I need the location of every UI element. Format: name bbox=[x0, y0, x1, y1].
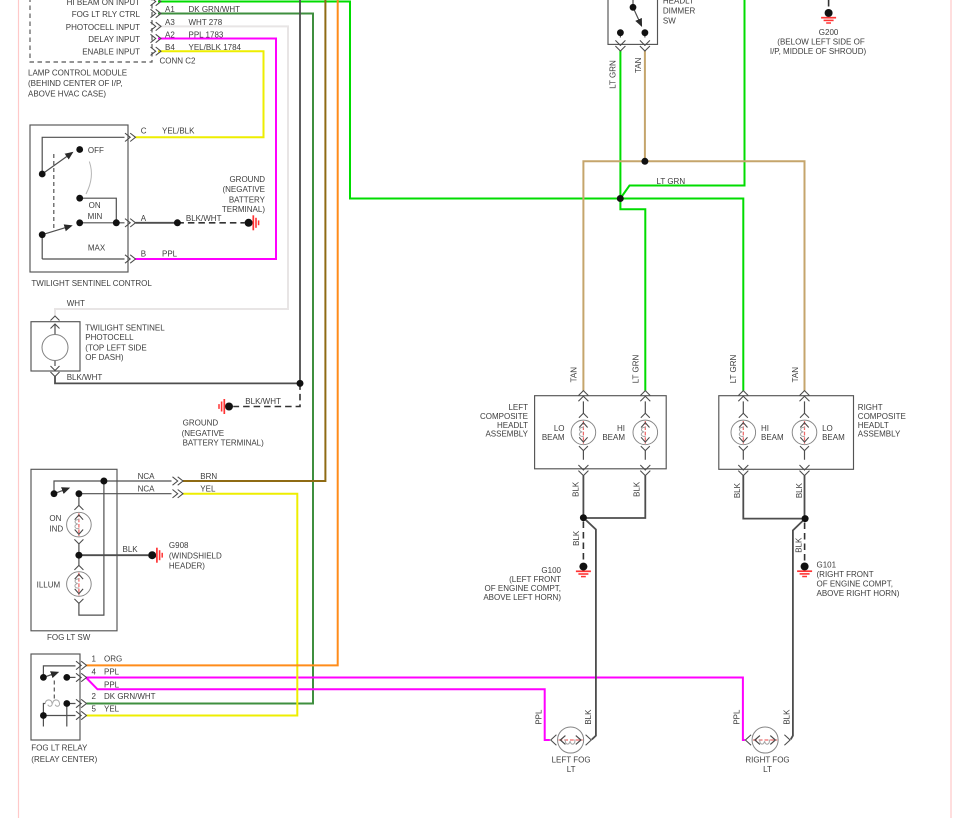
svg-text:CONN C2: CONN C2 bbox=[160, 56, 197, 65]
svg-text:GROUND: GROUND bbox=[183, 419, 219, 428]
svg-text:(NEGATIVE: (NEGATIVE bbox=[222, 185, 265, 194]
svg-text:HI: HI bbox=[761, 424, 769, 433]
svg-text:DIMMER: DIMMER bbox=[663, 7, 696, 16]
svg-text:ENABLE INPUT: ENABLE INPUT bbox=[82, 48, 140, 57]
svg-text:OF ENGINE COMPT,: OF ENGINE COMPT, bbox=[485, 584, 561, 593]
svg-text:RIGHT: RIGHT bbox=[858, 403, 883, 412]
svg-text:PHOTOCELL: PHOTOCELL bbox=[85, 333, 134, 342]
svg-text:LO: LO bbox=[554, 424, 565, 433]
svg-text:ABOVE RIGHT HORN): ABOVE RIGHT HORN) bbox=[817, 589, 900, 598]
svg-text:HEADER): HEADER) bbox=[169, 562, 205, 571]
svg-text:BLK: BLK bbox=[572, 530, 581, 546]
svg-text:LT GRN: LT GRN bbox=[657, 177, 686, 186]
svg-text:TAN: TAN bbox=[570, 367, 579, 383]
svg-text:SW: SW bbox=[663, 17, 676, 26]
svg-text:BLK: BLK bbox=[795, 537, 804, 553]
svg-text:BLK: BLK bbox=[733, 482, 742, 498]
svg-text:BEAM: BEAM bbox=[761, 433, 784, 442]
svg-text:MAX: MAX bbox=[88, 244, 106, 253]
svg-text:ILLUM: ILLUM bbox=[37, 581, 61, 590]
svg-text:IND: IND bbox=[49, 525, 63, 534]
svg-text:(BELOW LEFT SIDE OF: (BELOW LEFT SIDE OF bbox=[777, 38, 865, 47]
svg-text:RIGHT FOG: RIGHT FOG bbox=[745, 755, 789, 764]
svg-text:WHT 278: WHT 278 bbox=[189, 18, 223, 27]
svg-text:G908: G908 bbox=[169, 541, 189, 550]
svg-text:YEL/BLK: YEL/BLK bbox=[162, 127, 195, 136]
svg-text:A: A bbox=[141, 214, 147, 223]
svg-text:OF DASH): OF DASH) bbox=[85, 353, 124, 362]
svg-text:LT GRN: LT GRN bbox=[609, 60, 618, 89]
svg-text:LT GRN: LT GRN bbox=[729, 354, 738, 383]
svg-text:ASSEMBLY: ASSEMBLY bbox=[858, 430, 901, 439]
svg-text:BLK: BLK bbox=[783, 709, 792, 725]
svg-text:FOG LT RLY CTRL: FOG LT RLY CTRL bbox=[72, 10, 141, 19]
svg-text:YEL/BLK 1784: YEL/BLK 1784 bbox=[189, 43, 242, 52]
svg-text:BATTERY: BATTERY bbox=[229, 196, 266, 205]
svg-text:BLK: BLK bbox=[795, 482, 804, 498]
svg-text:LO: LO bbox=[822, 424, 833, 433]
svg-text:PPL 1783: PPL 1783 bbox=[189, 30, 224, 39]
svg-text:BLK: BLK bbox=[571, 481, 580, 497]
svg-text:WHT: WHT bbox=[67, 299, 85, 308]
svg-text:ABOVE LEFT HORN): ABOVE LEFT HORN) bbox=[483, 593, 561, 602]
svg-text:A2: A2 bbox=[165, 30, 175, 39]
svg-text:FOG LT SW: FOG LT SW bbox=[47, 633, 91, 642]
svg-text:TWILIGHT SENTINEL: TWILIGHT SENTINEL bbox=[85, 323, 165, 332]
svg-text:PPL: PPL bbox=[535, 709, 544, 725]
svg-text:B4: B4 bbox=[165, 43, 175, 52]
svg-text:DK GRN/WHT: DK GRN/WHT bbox=[104, 692, 156, 701]
svg-text:C: C bbox=[141, 127, 147, 136]
svg-text:(RIGHT FRONT: (RIGHT FRONT bbox=[817, 570, 874, 579]
svg-text:PPL: PPL bbox=[732, 709, 741, 725]
svg-text:LEFT FOG: LEFT FOG bbox=[552, 755, 591, 764]
svg-text:DK GRN/WHT: DK GRN/WHT bbox=[189, 5, 241, 14]
svg-text:LT GRN: LT GRN bbox=[632, 354, 641, 383]
svg-text:BLK: BLK bbox=[123, 545, 139, 554]
svg-text:FOG LT RELAY: FOG LT RELAY bbox=[31, 744, 88, 753]
svg-text:1: 1 bbox=[92, 655, 97, 664]
svg-text:ABOVE HVAC CASE): ABOVE HVAC CASE) bbox=[28, 89, 106, 98]
svg-text:TAN: TAN bbox=[791, 367, 800, 383]
svg-text:A3: A3 bbox=[165, 18, 175, 27]
svg-text:2: 2 bbox=[92, 692, 97, 701]
svg-text:HI BEAM ON INPUT: HI BEAM ON INPUT bbox=[67, 0, 140, 7]
svg-text:4: 4 bbox=[92, 667, 97, 676]
svg-text:BRN: BRN bbox=[200, 472, 217, 481]
svg-text:BLK/WHT: BLK/WHT bbox=[245, 397, 281, 406]
svg-text:I/P, MIDDLE OF SHROUD): I/P, MIDDLE OF SHROUD) bbox=[770, 47, 867, 56]
svg-text:NCA: NCA bbox=[138, 472, 156, 481]
svg-text:HI: HI bbox=[617, 424, 625, 433]
svg-text:BLK/WHT: BLK/WHT bbox=[67, 373, 103, 382]
svg-text:(NEGATIVE: (NEGATIVE bbox=[182, 429, 225, 438]
svg-text:COMPOSITE: COMPOSITE bbox=[858, 412, 906, 421]
svg-text:LAMP CONTROL MODULE: LAMP CONTROL MODULE bbox=[28, 69, 127, 78]
svg-text:(WINDSHIELD: (WINDSHIELD bbox=[169, 552, 222, 561]
svg-text:B: B bbox=[141, 250, 146, 259]
svg-text:BEAM: BEAM bbox=[602, 433, 625, 442]
svg-text:ON: ON bbox=[89, 201, 101, 210]
svg-text:PPL: PPL bbox=[104, 680, 120, 689]
svg-text:ASSEMBLY: ASSEMBLY bbox=[485, 430, 528, 439]
svg-text:LT: LT bbox=[763, 765, 772, 774]
svg-text:A1: A1 bbox=[165, 5, 175, 14]
svg-text:BEAM: BEAM bbox=[542, 433, 565, 442]
svg-text:BLK/WHT: BLK/WHT bbox=[186, 214, 222, 223]
svg-text:BLK: BLK bbox=[584, 709, 593, 725]
svg-text:TWILIGHT SENTINEL CONTROL: TWILIGHT SENTINEL CONTROL bbox=[31, 279, 152, 288]
svg-text:G100: G100 bbox=[541, 566, 561, 575]
svg-text:ORG: ORG bbox=[104, 655, 122, 664]
svg-text:OFF: OFF bbox=[88, 146, 104, 155]
svg-text:G200: G200 bbox=[819, 28, 839, 37]
svg-text:MIN: MIN bbox=[88, 212, 103, 221]
svg-text:COMPOSITE: COMPOSITE bbox=[480, 412, 528, 421]
svg-text:HEADLT: HEADLT bbox=[663, 0, 694, 5]
svg-text:G101: G101 bbox=[817, 561, 837, 570]
svg-text:DELAY INPUT: DELAY INPUT bbox=[88, 35, 140, 44]
svg-text:GROUND: GROUND bbox=[229, 175, 265, 184]
svg-text:BEAM: BEAM bbox=[822, 433, 845, 442]
svg-text:(LEFT FRONT: (LEFT FRONT bbox=[509, 575, 561, 584]
svg-text:ON: ON bbox=[49, 514, 61, 523]
svg-text:TERMINAL): TERMINAL) bbox=[222, 205, 265, 214]
svg-text:BLK: BLK bbox=[632, 481, 641, 497]
svg-text:LT: LT bbox=[567, 765, 576, 774]
svg-text:LEFT: LEFT bbox=[508, 403, 528, 412]
svg-text:(BEHIND CENTER OF I/P,: (BEHIND CENTER OF I/P, bbox=[28, 79, 123, 88]
svg-text:NCA: NCA bbox=[138, 484, 156, 493]
svg-text:OF ENGINE COMPT,: OF ENGINE COMPT, bbox=[817, 580, 893, 589]
svg-text:TAN: TAN bbox=[634, 57, 643, 73]
svg-text:5: 5 bbox=[92, 705, 97, 714]
svg-text:(TOP LEFT SIDE: (TOP LEFT SIDE bbox=[85, 344, 146, 353]
svg-text:(RELAY CENTER): (RELAY CENTER) bbox=[31, 755, 97, 764]
svg-text:YEL: YEL bbox=[200, 484, 216, 493]
svg-text:PHOTOCELL INPUT: PHOTOCELL INPUT bbox=[66, 23, 140, 32]
svg-text:PPL: PPL bbox=[104, 667, 120, 676]
svg-text:YEL: YEL bbox=[104, 705, 120, 714]
svg-text:PPL: PPL bbox=[162, 250, 178, 259]
svg-text:BATTERY TERMINAL): BATTERY TERMINAL) bbox=[183, 438, 265, 447]
